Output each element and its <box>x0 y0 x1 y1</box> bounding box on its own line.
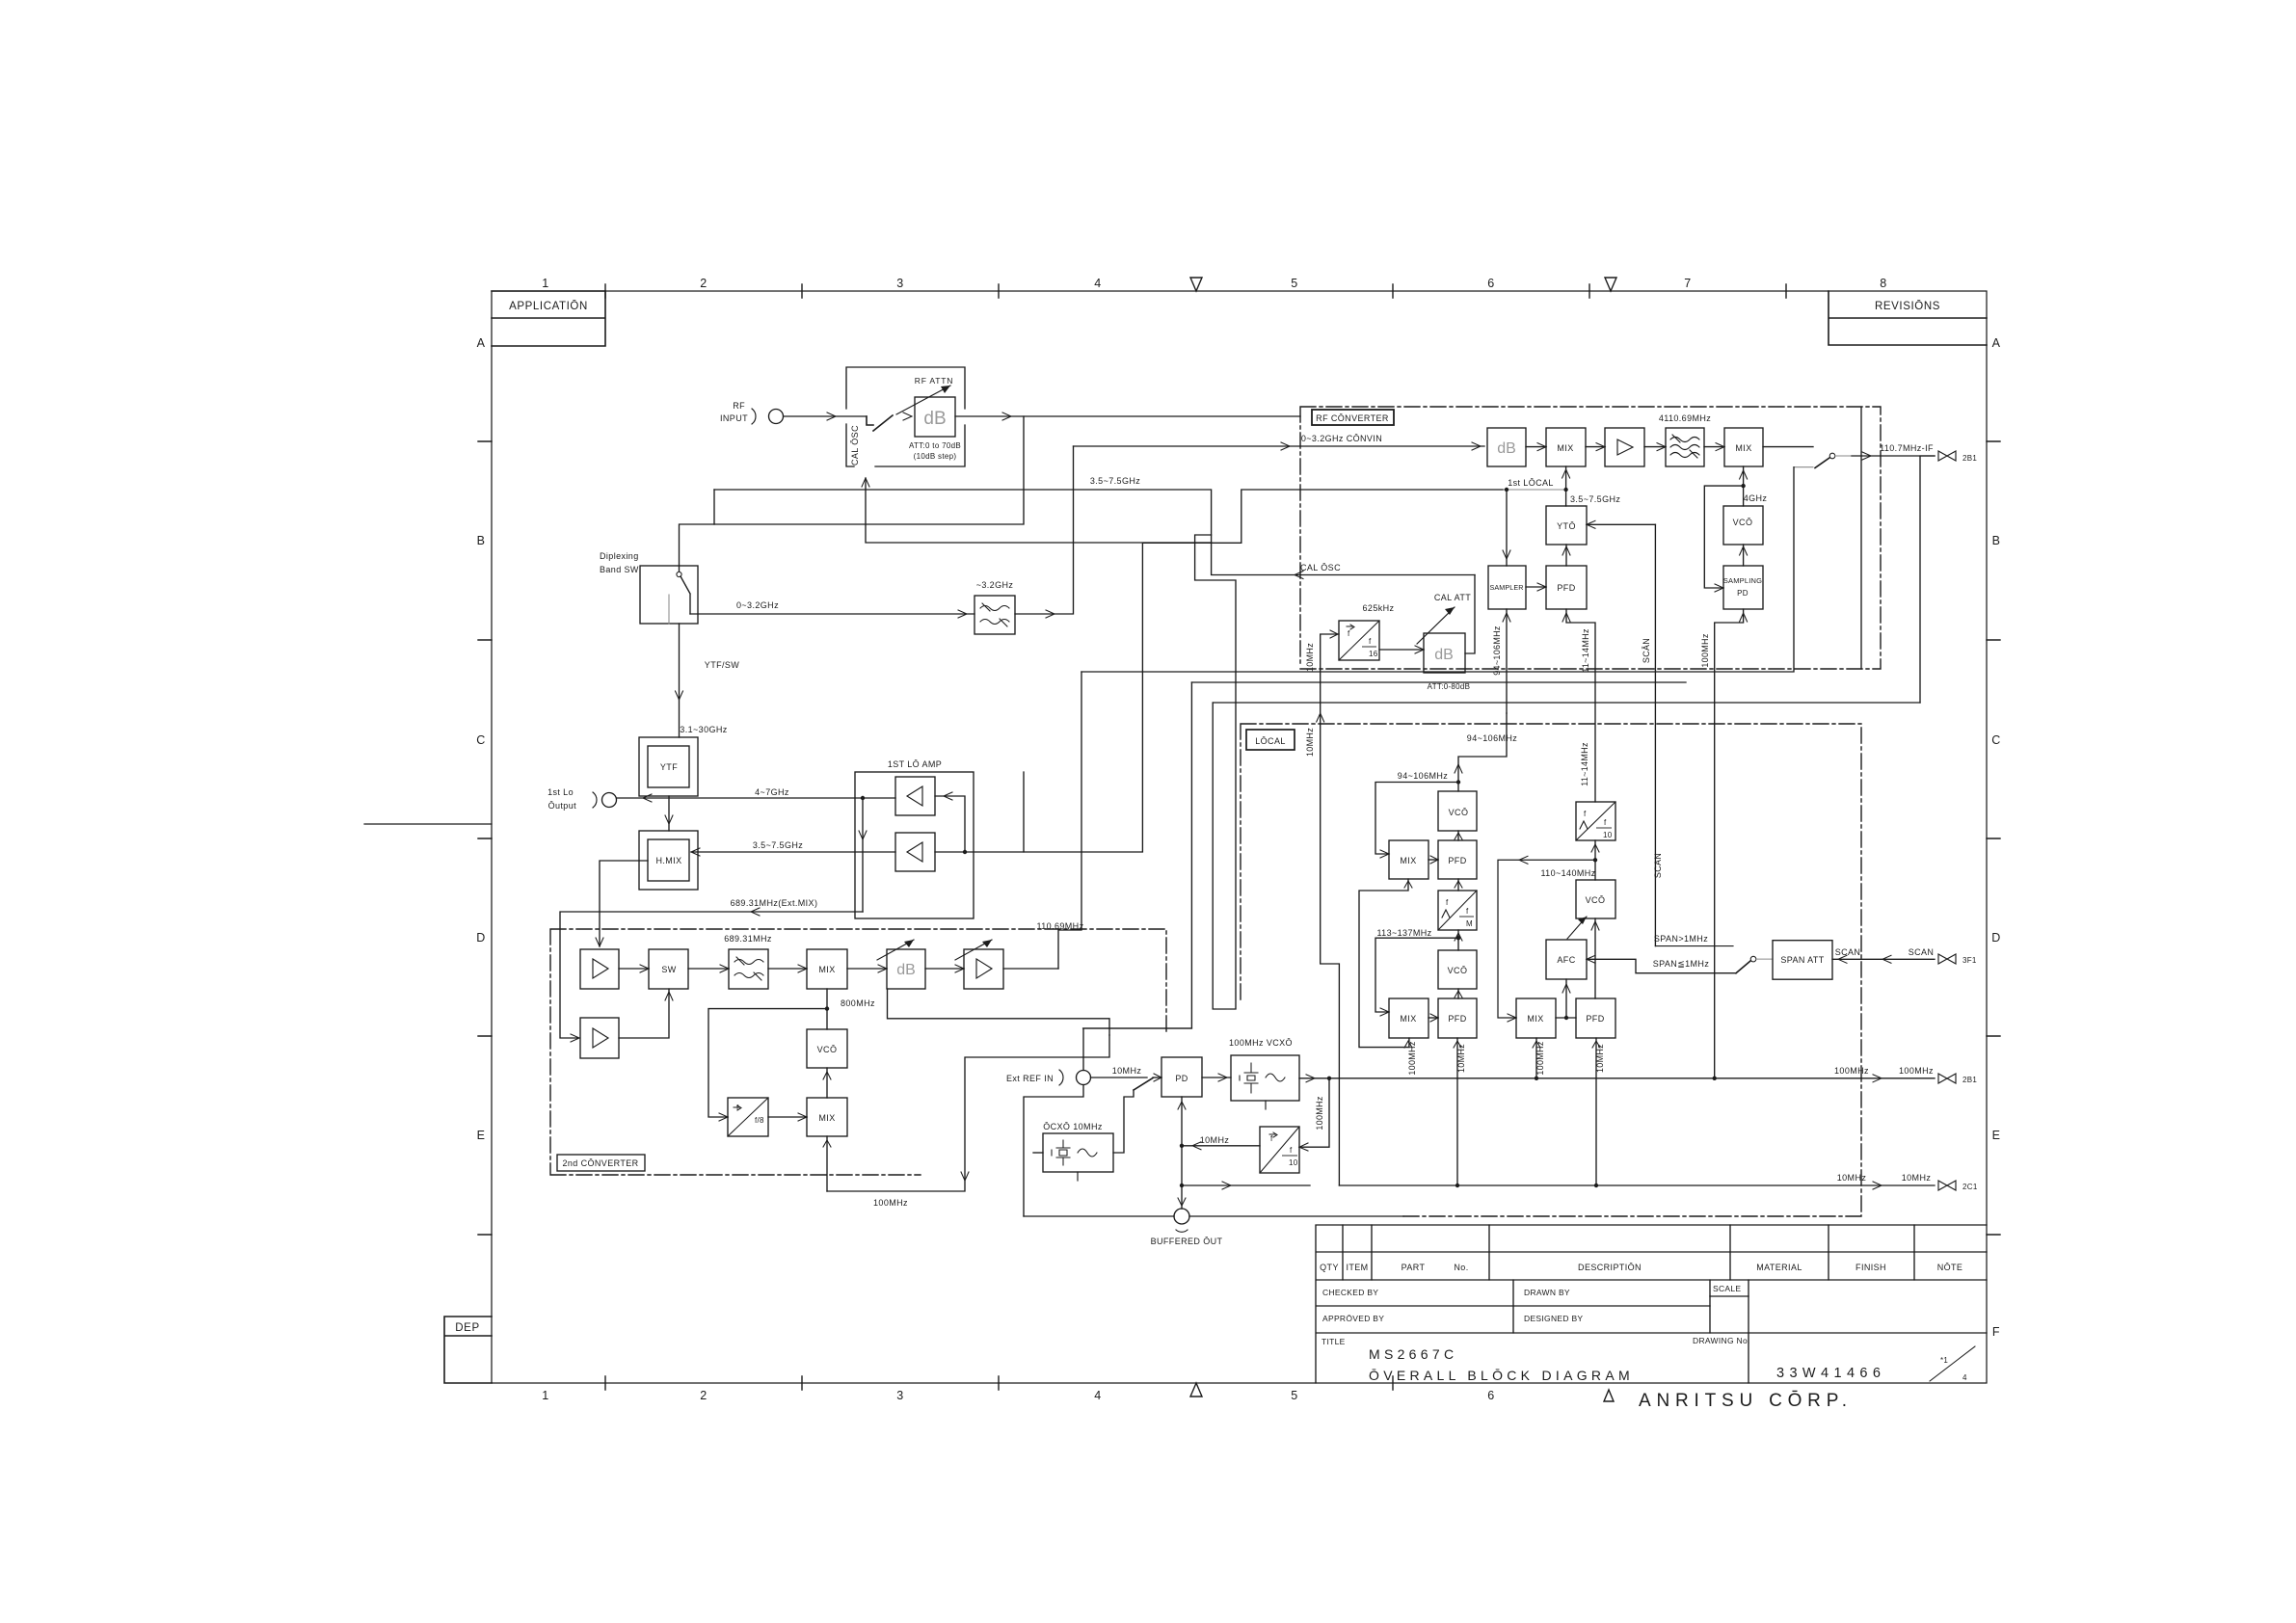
svg-text:DEP: DEP <box>455 1322 479 1334</box>
SAMPLER box <box>1488 566 1526 609</box>
wire SAMPLER bottom input 94-106MHz <box>1506 609 1508 713</box>
switch CAL OSC (RF attn input select) <box>867 415 893 431</box>
span switch <box>1750 956 1756 962</box>
svg-text:MIX: MIX <box>1400 1014 1416 1024</box>
svg-text:10MHz: 10MHz <box>1902 1173 1932 1183</box>
svg-text:100MHz: 100MHz <box>873 1198 908 1208</box>
svg-text:CAL ŌSC: CAL ŌSC <box>1300 563 1341 572</box>
wire H.MIX to 2nd converter <box>600 861 648 946</box>
svg-text:PFD: PFD <box>1448 856 1466 865</box>
svg-text:VCŌ: VCŌ <box>1586 895 1606 905</box>
svg-text:100MHz: 100MHz <box>1315 1096 1324 1131</box>
PFD box (YTO loop) <box>1546 566 1587 609</box>
svg-text:YTF: YTF <box>660 762 678 772</box>
wire amp3 to SW bottom <box>619 989 669 1038</box>
wire SW to filter <box>688 968 729 970</box>
2nd CONVERTER label box <box>557 1155 645 1171</box>
VCO1 box <box>1438 791 1477 831</box>
svg-text:YTF/SW: YTF/SW <box>705 660 740 670</box>
svg-text:94~106MHz: 94~106MHz <box>1492 625 1502 676</box>
diplexer switch arm <box>681 576 690 614</box>
wire VCO loop to SAMPLING PD left <box>1704 486 1743 588</box>
svg-text:*1: *1 <box>1940 1356 1948 1365</box>
wire SCAN into SPAN ATT <box>1832 958 1935 960</box>
RF ATTN outer box <box>846 367 965 466</box>
MIX L2 box <box>1389 998 1428 1038</box>
wire 1st local down to SAMPLER <box>1506 490 1508 566</box>
svg-text:DRAWING No.: DRAWING No. <box>1693 1336 1750 1345</box>
wire PD to VCXO <box>1202 1077 1231 1078</box>
svg-text:RF: RF <box>733 401 745 411</box>
f/M divider box <box>1438 891 1477 930</box>
wire divider junction <box>1594 840 1596 880</box>
svg-text:ŌCXŌ 10MHz: ŌCXŌ 10MHz <box>1043 1122 1103 1131</box>
svg-text:PART: PART <box>1402 1263 1426 1272</box>
svg-text:(10dB step): (10dB step) <box>914 452 957 461</box>
svg-text:F: F <box>1992 1325 2000 1339</box>
revision triangle top 2 <box>1605 278 1616 291</box>
svg-text:CAL ATT: CAL ATT <box>1434 593 1471 602</box>
wire aux from dB bottom to ref section <box>888 989 1110 1035</box>
bowtie connector 2B1 (IF) <box>1938 451 1956 461</box>
1ST LO AMP amp2 <box>895 833 935 871</box>
svg-text:4GHz: 4GHz <box>1744 493 1768 503</box>
svg-text:B: B <box>477 534 486 547</box>
svg-text:VCŌ: VCŌ <box>817 1045 838 1054</box>
svg-text:MIX: MIX <box>818 1113 835 1123</box>
RF CONVERTER label box <box>1312 410 1394 425</box>
Diplexing Band SW box <box>640 566 698 624</box>
wire 689.31 drop from 4-7GHz line <box>862 798 864 912</box>
svg-text:APPLICATIŌN: APPLICATIŌN <box>509 301 588 312</box>
svg-text:2B1: 2B1 <box>1962 1076 1977 1084</box>
svg-text:1: 1 <box>542 277 548 290</box>
svg-text:100MHz: 100MHz <box>1407 1041 1417 1076</box>
svg-text:SAMPLER: SAMPLER <box>1489 583 1523 592</box>
11-14MHz divider f/10 upper <box>1576 802 1615 840</box>
wire 689.31MHz(Ext.MIX) <box>560 912 863 1038</box>
wire f/10 out to PD <box>1182 1145 1260 1147</box>
svg-text:PFD: PFD <box>1586 1014 1604 1024</box>
filter ~3.2GHz box <box>974 596 1015 634</box>
svg-text:10MHz: 10MHz <box>1305 643 1315 672</box>
svg-text:QTY: QTY <box>1320 1263 1339 1272</box>
svg-text:2: 2 <box>700 1389 707 1402</box>
svg-text:10MHz: 10MHz <box>1305 728 1315 757</box>
left end of 3.5-7.5 line <box>713 490 715 524</box>
Ext REF top staircase <box>1083 1028 1191 1071</box>
10MHz bus <box>1182 1184 1935 1186</box>
svg-text:SCĀN: SCĀN <box>1642 638 1651 663</box>
wire AFC right input SPAN<=1MHz <box>1587 959 1736 972</box>
wire PFD to VCO1 <box>1457 831 1459 840</box>
svg-text:94~106MHz: 94~106MHz <box>1467 733 1517 743</box>
svg-text:110.7MHz-IF: 110.7MHz-IF <box>1880 443 1934 453</box>
wire dB to amp2 <box>925 968 964 970</box>
2nd conv amp2 box <box>964 949 1003 989</box>
wire SCAN into YTO <box>1587 523 1655 525</box>
svg-text:YTŌ: YTŌ <box>1557 521 1576 531</box>
OCXO to ref switch <box>1113 1090 1134 1153</box>
OCXO box <box>1043 1133 1113 1172</box>
wire 100MHz from ref section <box>827 1035 1109 1191</box>
2nd conv MIX box <box>807 949 847 989</box>
YTF outer box <box>639 737 698 796</box>
wire dB out to right <box>955 415 1300 417</box>
svg-text:SPAN≦1MHz: SPAN≦1MHz <box>1653 959 1710 969</box>
svg-text:1st Lo: 1st Lo <box>547 787 574 797</box>
svg-text:625kHz: 625kHz <box>1363 603 1395 613</box>
wire YTF/SW down <box>679 624 681 737</box>
SPAN ATT box <box>1773 941 1832 980</box>
svg-text:3F1: 3F1 <box>1962 956 1977 965</box>
svg-text:689.31MHz(Ext.MIX): 689.31MHz(Ext.MIX) <box>731 898 818 908</box>
MIX L1 bottom stub <box>1359 879 1409 1048</box>
filter 689.31MHz box <box>729 949 768 989</box>
VCO R box <box>1576 880 1615 918</box>
svg-text:689.31MHz: 689.31MHz <box>724 934 772 944</box>
svg-text:dB: dB <box>896 962 916 978</box>
svg-text:MATERIAL: MATERIAL <box>1756 1263 1802 1272</box>
converter MIX1 box <box>1546 428 1586 466</box>
VCO2 box <box>1438 950 1477 989</box>
svg-text:33W41466: 33W41466 <box>1776 1366 1885 1381</box>
svg-text:A: A <box>477 336 486 350</box>
svg-text:SCAN: SCAN <box>1835 947 1861 957</box>
wire PFD bottom input 11-14MHz <box>1566 609 1595 802</box>
wire MIX L2 to PFD L2 <box>1428 1017 1438 1019</box>
wire PFD to YTO <box>1565 545 1567 566</box>
drawing no slash <box>1930 1346 1975 1381</box>
svg-text:MIX: MIX <box>1557 443 1573 453</box>
f/8 divider box <box>728 1098 768 1136</box>
wire VCO up to MIX2 <box>1743 466 1745 506</box>
svg-text:100MHz: 100MHz <box>1700 633 1710 668</box>
SAMPLING PD box <box>1723 566 1763 609</box>
svg-text:ANRITSU CŌRP.: ANRITSU CŌRP. <box>1639 1391 1853 1411</box>
wire SAMPLING PD bottom 100MHz <box>1715 609 1744 1078</box>
svg-text:Ōutput: Ōutput <box>548 801 577 811</box>
DEP box <box>444 1317 492 1383</box>
sheet border <box>492 291 1987 1383</box>
svg-text:BUFFERED ŌUT: BUFFERED ŌUT <box>1151 1237 1223 1246</box>
2nd conv amp1 box <box>580 949 619 989</box>
svg-text:DRAWN BY: DRAWN BY <box>1524 1288 1570 1297</box>
wire amp feedback right side <box>935 772 1024 852</box>
svg-text:APPRŌVED BY: APPRŌVED BY <box>1322 1314 1384 1323</box>
svg-text:LŌCAL: LŌCAL <box>1255 736 1286 746</box>
CAL OSC feedback vertical <box>866 478 1212 543</box>
svg-text:1st LŌCAL: 1st LŌCAL <box>1508 478 1554 488</box>
100MHz bus <box>1299 1078 1935 1079</box>
svg-text:MIX: MIX <box>818 965 835 974</box>
svg-text:TITLE: TITLE <box>1322 1337 1346 1346</box>
svg-text:2nd CŌNVERTER: 2nd CŌNVERTER <box>562 1158 638 1168</box>
svg-text:Diplexing: Diplexing <box>600 551 639 561</box>
svg-text:800MHz: 800MHz <box>841 998 875 1008</box>
left row ticks <box>478 441 492 1235</box>
svg-text:10: 10 <box>1289 1158 1298 1167</box>
svg-text:M: M <box>1466 919 1473 928</box>
sheet centre mark left <box>364 823 492 825</box>
svg-text:C: C <box>476 733 486 747</box>
2nd conv VCO box <box>807 1029 847 1068</box>
wire PFD R to VCO R <box>1594 918 1596 998</box>
wire YTO up to MIX1 <box>1565 466 1567 490</box>
svg-text:8: 8 <box>1880 277 1886 290</box>
BUFFERED OUT connector <box>1174 1209 1189 1224</box>
svg-text:10MHz: 10MHz <box>1456 1044 1466 1073</box>
svg-text:3: 3 <box>896 277 903 290</box>
svg-text:NŌTE: NŌTE <box>1937 1263 1963 1272</box>
H.MIX outer box <box>639 831 698 890</box>
wire 3.5~7.5GHz into H.MIX <box>691 851 895 853</box>
svg-text:11~14MHz: 11~14MHz <box>1580 742 1589 786</box>
svg-text:D: D <box>476 931 486 945</box>
converter MIX2 box <box>1724 428 1763 466</box>
wire 94-106MHz riser to SAMPLER <box>1458 713 1507 791</box>
RF ATTN dB attenuator <box>915 397 955 437</box>
svg-text:dB: dB <box>923 409 946 429</box>
svg-text:4110.69MHz: 4110.69MHz <box>1659 413 1711 423</box>
SW box <box>649 949 688 989</box>
PD box <box>1161 1057 1202 1097</box>
1ST LO AMP outer box <box>855 772 974 918</box>
wire f/8 to MIX2 <box>768 1116 807 1118</box>
svg-text:SPAN>1MHz: SPAN>1MHz <box>1654 934 1708 944</box>
CAL OSC line <box>1212 543 1475 574</box>
wire down to diplexer <box>680 416 1025 572</box>
1ST LO AMP amp1 <box>895 777 935 815</box>
svg-text:7: 7 <box>1684 277 1691 290</box>
H.MIX box <box>648 839 689 881</box>
internal vertical right of converter <box>1860 408 1862 669</box>
wire VCXO out down to f/10 <box>1299 1078 1329 1147</box>
wire YTF to H.MIX <box>668 796 670 831</box>
svg-text:4: 4 <box>1094 277 1101 290</box>
800MHz loop to f/8 <box>708 1009 827 1117</box>
wire IF switch lower contact riser <box>1081 467 1794 672</box>
svg-text:A: A <box>1992 336 2001 350</box>
OCXO ground stub <box>1077 1172 1079 1181</box>
wire 110.69MHz from 2nd converter <box>1058 672 1081 969</box>
wire filter to converter riser <box>1015 446 1074 614</box>
svg-text:0~3.2GHz CŌNVIN: 0~3.2GHz CŌNVIN <box>1301 434 1382 443</box>
svg-text:11~14MHz: 11~14MHz <box>1581 628 1590 673</box>
wire MIX2 to VCO <box>826 1068 828 1098</box>
PFD L2 box <box>1438 998 1477 1038</box>
wire MIX2 bottom 100MHz <box>826 1136 828 1191</box>
AFC to VCO R arrow <box>1567 917 1587 939</box>
svg-text:100MHz VCXŌ: 100MHz VCXŌ <box>1229 1038 1293 1048</box>
Ext REF bottom loop <box>1024 1085 1083 1217</box>
MIX L1 box <box>1389 840 1428 879</box>
wire f/M to PFD <box>1457 879 1459 891</box>
wire 0~3.2GHz CONVIN <box>1074 445 1485 447</box>
svg-text:SW: SW <box>661 965 676 974</box>
bowtie connector 2C1 <box>1938 1181 1956 1190</box>
converter dB box <box>1487 428 1526 466</box>
svg-text:4: 4 <box>1094 1389 1101 1402</box>
svg-text:5: 5 <box>1291 277 1297 290</box>
svg-text:SPAN ATT: SPAN ATT <box>1780 955 1824 965</box>
LOCAL label box <box>1246 730 1295 750</box>
title block verticals <box>1343 1225 1914 1383</box>
svg-text:2B1: 2B1 <box>1962 454 1977 463</box>
svg-text:110~140MHz: 110~140MHz <box>1540 868 1595 878</box>
svg-text:Ext REF IN: Ext REF IN <box>1006 1074 1054 1083</box>
svg-text:16: 16 <box>1369 650 1378 658</box>
svg-text:B: B <box>1992 534 2001 547</box>
wire SAMPLING PD to VCO <box>1743 545 1745 566</box>
wire MIX down to VCO with 800MHz tap <box>826 989 828 1029</box>
svg-text:10MHz: 10MHz <box>1837 1173 1867 1183</box>
svg-text:MS2667C: MS2667C <box>1369 1346 1457 1362</box>
svg-text:3.5~7.5GHz: 3.5~7.5GHz <box>1570 494 1620 504</box>
VCXO ground stub <box>1265 1101 1267 1109</box>
svg-text:SCAN: SCAN <box>1653 853 1663 878</box>
bottom column ticks <box>605 1376 1393 1390</box>
wire 3.5~7.5GHz long line with jog <box>714 490 1504 852</box>
svg-text:ATT:0-80dB: ATT:0-80dB <box>1428 682 1471 691</box>
converter 411MHz filter box <box>1666 428 1704 466</box>
svg-text:INPUT: INPUT <box>720 413 748 423</box>
title block outline <box>1316 1225 1987 1383</box>
wire PFD L2 to VCO2 <box>1457 989 1459 998</box>
svg-text:94~106MHz: 94~106MHz <box>1398 771 1448 781</box>
svg-text:dB: dB <box>1434 647 1454 663</box>
svg-text:E: E <box>1992 1129 2001 1142</box>
chain wires <box>1526 446 1813 448</box>
triangle near ANRITSU <box>1604 1390 1614 1401</box>
svg-text:3.1~30GHz: 3.1~30GHz <box>680 725 727 734</box>
10MHz riser to f/16 divider <box>1321 634 1340 1185</box>
loop VCO2 to MIX L2 <box>1375 938 1458 1012</box>
svg-text:2: 2 <box>700 277 707 290</box>
loop to MIX R <box>1498 860 1595 1018</box>
revision triangle top 1 <box>1190 278 1202 291</box>
CAL 625kHz divider f/16 <box>1339 621 1379 660</box>
svg-text:f/8: f/8 <box>755 1116 764 1125</box>
2nd conv MIX2 box <box>807 1098 847 1136</box>
svg-text:0~3.2GHz: 0~3.2GHz <box>736 600 779 610</box>
svg-text:SCAN: SCAN <box>1909 947 1935 957</box>
svg-text:6: 6 <box>1487 1389 1494 1402</box>
svg-text:10: 10 <box>1603 831 1613 839</box>
bowtie connector 3F1 <box>1938 954 1956 964</box>
svg-text:100MHz: 100MHz <box>1834 1066 1869 1076</box>
svg-text:100MHz: 100MHz <box>1535 1041 1545 1076</box>
svg-text:MIX: MIX <box>1735 443 1751 453</box>
2nd conv amp3 box <box>580 1018 619 1058</box>
svg-text:FINISH: FINISH <box>1855 1263 1886 1272</box>
svg-text:4: 4 <box>1962 1373 1967 1382</box>
svg-text:3: 3 <box>896 1389 903 1402</box>
svg-text:VCŌ: VCŌ <box>1449 808 1469 817</box>
VCXO crystal symbol <box>1240 1063 1258 1093</box>
wire divider to CAL ATT <box>1379 649 1424 651</box>
loop VCO1 to MIX <box>1375 783 1458 855</box>
PFD R box <box>1576 998 1615 1038</box>
wire MIX R to PFD R with AFC tap <box>1556 979 1576 1018</box>
svg-text:ITEM: ITEM <box>1346 1263 1368 1272</box>
OCXO crystal symbol <box>1052 1140 1070 1165</box>
svg-text:SCALE: SCALE <box>1713 1284 1741 1293</box>
wire SAMPLER to PFD <box>1526 586 1546 588</box>
LOCAL dash-dot boundary <box>1241 724 1861 1216</box>
svg-text:dB: dB <box>1497 440 1516 457</box>
2nd CONVERTER dash-dot boundary <box>550 929 1166 1175</box>
top column ticks <box>605 284 1786 298</box>
svg-text:10MHz: 10MHz <box>1112 1066 1142 1076</box>
staircase from Ext REF to top <box>1083 535 1236 1028</box>
svg-text:VCŌ: VCŌ <box>1733 518 1753 527</box>
APPLICATION box <box>492 291 605 346</box>
svg-text:~3.2GHz: ~3.2GHz <box>976 580 1014 590</box>
svg-text:10MHz: 10MHz <box>1200 1135 1230 1145</box>
mid buses <box>1191 681 1686 683</box>
buffered out line <box>1024 1215 1403 1217</box>
diplexer centre pole <box>668 595 670 624</box>
svg-text:10MHz: 10MHz <box>1595 1044 1605 1073</box>
AFC box <box>1546 940 1587 979</box>
svg-text:2C1: 2C1 <box>1962 1183 1978 1191</box>
PFD L1 box <box>1438 840 1477 879</box>
svg-text:ŌVERALL BLŌCK DIAGRAM: ŌVERALL BLŌCK DIAGRAM <box>1369 1368 1634 1383</box>
svg-text:CHECKED BY: CHECKED BY <box>1322 1288 1378 1297</box>
svg-text:1ST LŌ AMP: 1ST LŌ AMP <box>888 759 942 769</box>
svg-text:113~137MHz: 113~137MHz <box>1376 928 1431 938</box>
svg-text:PD: PD <box>1175 1074 1188 1083</box>
svg-text:PFD: PFD <box>1557 583 1575 593</box>
revision triangle bottom 1 <box>1190 1383 1202 1397</box>
OCXO left stub <box>1033 1152 1043 1154</box>
right row ticks <box>1987 441 2000 1235</box>
svg-text:3.5~7.5GHz: 3.5~7.5GHz <box>753 840 803 850</box>
svg-text:DESCRIPTIŌN: DESCRIPTIŌN <box>1578 1263 1642 1272</box>
1st Lo Output connector <box>593 792 597 808</box>
MIX R box <box>1516 998 1556 1038</box>
SCAN vertical <box>1654 524 1656 945</box>
svg-text:CAL ŌSC: CAL ŌSC <box>850 425 860 466</box>
converter amp box <box>1605 428 1644 466</box>
wire MIX to PFD <box>1428 859 1438 861</box>
wire amp1 to SW <box>619 968 649 970</box>
REVISIONS box <box>1829 291 1987 345</box>
svg-text:PD: PD <box>1737 589 1749 598</box>
svg-text:SAMPLING: SAMPLING <box>1723 576 1762 585</box>
svg-text:110.69MHz: 110.69MHz <box>1037 921 1084 931</box>
svg-text:100MHz: 100MHz <box>1899 1066 1934 1076</box>
svg-text:E: E <box>477 1129 486 1142</box>
YTF box <box>648 746 689 787</box>
wire 110.7MHz IF out <box>1852 455 1935 457</box>
100MHz VCXO box <box>1231 1055 1299 1101</box>
svg-text:MIX: MIX <box>1400 856 1416 865</box>
svg-text:1: 1 <box>542 1389 548 1402</box>
wire MIX to dB <box>847 968 887 970</box>
svg-text:D: D <box>1991 931 2001 945</box>
svg-text:5: 5 <box>1291 1389 1297 1402</box>
wire Ext REF to switch <box>1091 1077 1148 1078</box>
wire SPAN>1MHz <box>1655 945 1733 947</box>
f/10 divider box <box>1260 1127 1299 1173</box>
wire IF branch down <box>1920 456 1935 703</box>
svg-text:C: C <box>1991 733 2001 747</box>
wire 0~3.2GHz diplexer to filter <box>690 613 974 615</box>
wire filter to MIX <box>768 968 807 970</box>
RF ATTN variable arrow <box>896 386 950 414</box>
